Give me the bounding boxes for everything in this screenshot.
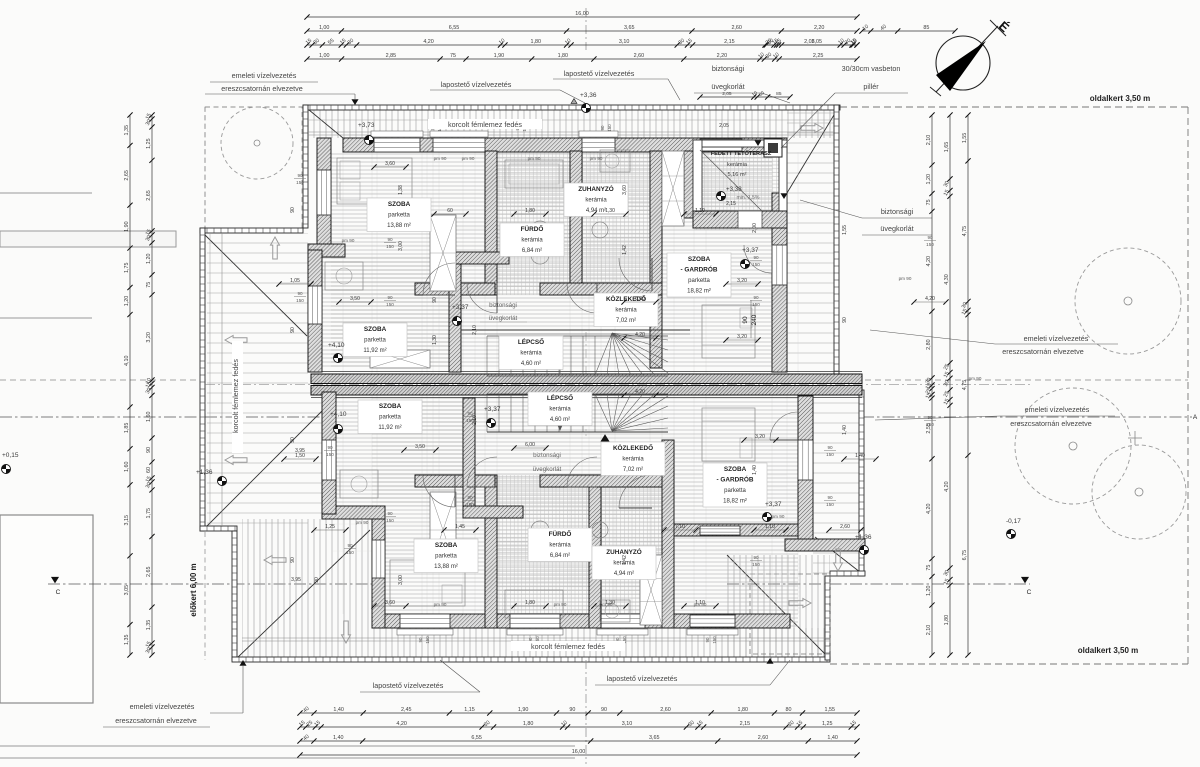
svg-text:150: 150 [826,452,834,457]
desk wing lower [340,470,378,498]
svg-text:+3,36: +3,36 [580,92,597,99]
right outer wall lower [798,396,813,551]
svg-text:2,20: 2,20 [814,25,825,31]
svg-text:2,65: 2,65 [124,170,130,181]
svg-text:kerámia: kerámia [549,543,571,549]
svg-text:biztonsági: biztonsági [881,207,914,216]
bed gardrob upper [702,305,755,358]
tree top-left [221,107,293,179]
svg-text:pm 90: pm 90 [462,156,475,161]
svg-text:90: 90 [290,327,296,333]
annotation korcolt fémlemez fedés top [428,119,542,129]
svg-text:parketta: parketta [364,338,386,344]
wardrobe gardrob upper [662,151,684,226]
bed gardrob lower [702,408,755,461]
svg-text:pm 90: pm 90 [434,156,447,161]
svg-text:150: 150 [425,636,430,644]
svg-text:üvegkorlát: üvegkorlát [880,224,913,233]
roof drainage arrows [271,237,280,259]
room label közlekedő upper [594,293,658,327]
oldalkert boundary top right dashed [840,106,1188,108]
svg-text:90: 90 [927,415,933,420]
svg-text:pm 90: pm 90 [528,156,541,161]
svg-text:kerámia: kerámia [615,308,637,314]
wardrobe lower [430,492,456,568]
tree right 3 [1092,445,1186,539]
svg-text:2,10: 2,10 [926,135,932,146]
svg-text:3,50: 3,50 [350,296,360,302]
svg-text:1,25: 1,25 [146,138,152,149]
left dimension chain outer [129,115,131,655]
svg-text:90: 90 [290,557,296,563]
svg-text:150: 150 [752,262,760,267]
svg-text:1,40: 1,40 [827,735,838,741]
eaves band wing top [200,228,303,233]
dashed line right of building (ridge projection) [865,379,1188,381]
svg-text:2,65: 2,65 [146,567,152,578]
svg-text:3,20: 3,20 [755,434,765,440]
svg-text:3,60: 3,60 [385,161,395,167]
svg-text:1,20: 1,20 [926,174,932,185]
svg-text:90: 90 [753,255,759,260]
svg-text:6,00: 6,00 [525,442,535,448]
eaves band top [303,105,840,110]
svg-text:7,02 m²: 7,02 m² [616,318,636,324]
svg-text:90: 90 [927,235,933,240]
svg-text:1,40: 1,40 [842,425,848,435]
terrace gutter triangles [755,141,761,146]
svg-text:90: 90 [387,295,393,300]
svg-text:1,90: 1,90 [124,221,130,232]
svg-text:2,10: 2,10 [472,325,478,335]
room label szoba 11.92 upper [343,323,407,357]
svg-text:150: 150 [752,562,760,567]
svg-text:3,60: 3,60 [385,600,395,606]
stairs upper [486,336,488,376]
pillar 30/30 [764,139,782,157]
svg-text:1,55: 1,55 [825,707,836,713]
svg-text:parketta: parketta [435,554,457,560]
survey cross [1128,437,1142,439]
left outer wall upper [317,138,331,257]
svg-text:2,85: 2,85 [386,53,397,59]
bottom dimension chain row 1 [300,712,857,714]
svg-text:1,10: 1,10 [765,524,775,530]
svg-text:90: 90 [827,445,833,450]
svg-text:2,05: 2,05 [722,91,732,97]
svg-text:3,50: 3,50 [415,444,425,450]
door arcs [423,263,455,295]
svg-text:1,42: 1,42 [622,555,628,565]
svg-text:75: 75 [926,199,932,205]
svg-text:emeleti vízelvezetés: emeleti vízelvezetés [1024,334,1089,343]
svg-text:pm 90: pm 90 [969,376,982,381]
svg-text:30/30cm vasbeton: 30/30cm vasbeton [842,64,901,73]
gutter lines left wing roof [209,233,211,527]
eaves band bottom [232,657,830,662]
bed lower szoba [390,560,465,606]
svg-text:1,25: 1,25 [325,524,335,530]
room label lépcső upper [499,336,563,370]
svg-text:80: 80 [785,707,791,713]
svg-text:11,92 m²: 11,92 m² [363,348,386,354]
svg-text:4,94 m²: 4,94 m² [614,571,634,577]
svg-text:parketta: parketta [388,213,410,219]
svg-text:150: 150 [712,636,717,644]
bath fixtures upper [505,160,563,188]
svg-text:90: 90 [297,173,303,178]
eaves band left upper [303,105,308,228]
svg-text:3,20: 3,20 [737,334,747,340]
room label gardrob upper [667,253,731,297]
svg-text:3,65: 3,65 [649,735,660,741]
section line C [48,583,372,585]
svg-text:3,60: 3,60 [622,185,628,195]
railing above stairs [461,329,690,331]
room label zuhanyzó lower [592,546,656,580]
svg-text:korcolt fémlemez fedés: korcolt fémlemez fedés [448,120,522,129]
svg-text:2,25: 2,25 [813,53,824,59]
svg-text:75: 75 [926,565,932,571]
svg-text:150: 150 [752,302,760,307]
room label szoba 13.88 upper [367,198,431,232]
svg-text:+3,38: +3,38 [726,186,742,193]
eaves band wing left [200,228,205,531]
eaves band right lower [859,390,864,576]
bottom outer wall [372,614,790,628]
right outer wall upper [772,193,787,372]
svg-text:+0,15: +0,15 [2,452,19,459]
svg-text:3,10: 3,10 [619,39,630,45]
svg-text:LÉPCSŐ: LÉPCSŐ [547,393,573,402]
svg-text:150: 150 [466,502,474,507]
top small header chains right [862,30,955,32]
room label szoba 11.92 lower [358,400,422,434]
svg-text:ZUHANYZÓ: ZUHANYZÓ [606,547,642,556]
room label közlekedő lower [601,442,665,476]
svg-text:pm 90: pm 90 [694,602,707,607]
tree right 1 [1075,248,1181,354]
room floors [331,151,772,368]
svg-text:1,80: 1,80 [738,707,749,713]
north arrow [936,36,990,90]
svg-text:FÜRDŐ: FÜRDŐ [521,224,544,233]
svg-text:parketta: parketta [379,415,401,421]
svg-text:90: 90 [347,543,353,548]
svg-text:90: 90 [569,707,575,713]
svg-text:+3,73: +3,73 [358,122,375,129]
wardrobe gardrob lower [640,555,662,625]
svg-text:90: 90 [742,316,749,324]
svg-text:16,00: 16,00 [572,749,586,755]
room label fürdő upper [500,223,564,257]
svg-text:1,80: 1,80 [523,721,534,727]
svg-text:üvegkorlát: üvegkorlát [489,315,518,322]
svg-text:2,05: 2,05 [719,123,729,129]
svg-text:2,10: 2,10 [926,625,932,636]
svg-text:90: 90 [827,495,833,500]
annotation korcolt fémlemez fedés bottom [511,641,625,651]
svg-text:pm 90: pm 90 [356,520,369,525]
right dimension chain mid [949,115,951,655]
svg-text:75: 75 [146,282,152,288]
left dimension chain inner [151,115,153,655]
svg-text:5,16 m²: 5,16 m² [728,172,747,178]
eaves band right upper [834,105,839,379]
svg-text:1,55: 1,55 [842,225,848,235]
svg-text:90: 90 [418,637,423,642]
svg-text:4,20: 4,20 [926,256,932,267]
svg-text:ereszcsatornán elvezetve: ereszcsatornán elvezetve [1002,347,1084,356]
svg-text:4,20: 4,20 [925,296,935,302]
svg-text:emeleti vízelvezetés: emeleti vízelvezetés [232,71,297,80]
stairs lower [486,394,488,432]
svg-text:2,60: 2,60 [634,53,645,59]
bottom dimension chain row 4 [300,754,857,756]
svg-text:2,45: 2,45 [401,707,412,713]
svg-text:150: 150 [326,452,334,457]
svg-text:parketta: parketta [688,278,710,284]
svg-text:üvegkorlát: üvegkorlát [533,466,562,473]
svg-text:biztonsági: biztonsági [712,64,745,73]
wardrobe upper [430,215,456,291]
svg-text:C: C [1027,589,1032,596]
svg-text:1,20: 1,20 [926,586,932,597]
site context lines left [0,192,92,194]
svg-text:2,15: 2,15 [726,201,736,207]
svg-text:90: 90 [753,295,759,300]
gardrob wall next to terrace [684,151,693,218]
svg-text:2,00: 2,00 [752,223,758,233]
svg-text:kerámia: kerámia [727,162,748,168]
svg-text:+1,36: +1,36 [855,534,872,541]
faint horizontal extension lines through plan [331,192,787,194]
gardrob bottom wall lower [674,524,798,536]
gutter lines bottom roof strip [242,637,830,639]
svg-text:oldalkert 3,50 m: oldalkert 3,50 m [1078,646,1138,655]
svg-text:előkert 6,00 m: előkert 6,00 m [189,563,198,616]
neighbour building outline bottom-left [0,515,93,703]
svg-text:150: 150 [386,518,394,523]
svg-text:90: 90 [387,511,393,516]
svg-text:+3,37: +3,37 [452,304,469,311]
svg-text:emeleti vízelvezetés: emeleti vízelvezetés [1025,405,1090,414]
svg-text:4,20: 4,20 [423,39,434,45]
svg-text:90: 90 [467,495,473,500]
svg-text:biztonsági: biztonsági [489,302,517,309]
oldalkert boundary bottom dashed [830,663,1188,665]
wing top wall [308,244,345,257]
svg-text:+3,37: +3,37 [765,501,782,508]
svg-text:-0,17: -0,17 [1006,518,1021,525]
top outer wall [343,138,787,152]
svg-text:90: 90 [600,125,605,130]
symmetry axis dash-dot [585,8,587,50]
svg-text:4,20: 4,20 [926,503,932,514]
svg-text:lapostető vízelvezetés: lapostető vízelvezetés [564,69,635,78]
svg-text:SZOBA: SZOBA [364,326,387,333]
svg-text:6,84 m²: 6,84 m² [522,248,542,254]
svg-text:150: 150 [926,422,934,427]
svg-text:+1,36: +1,36 [196,469,213,476]
roof hip diagonals [303,105,343,138]
svg-text:+3,37: +3,37 [742,247,759,254]
svg-text:6,75: 6,75 [962,550,968,561]
svg-text:2,60: 2,60 [758,735,769,741]
svg-text:4,20: 4,20 [635,332,645,338]
svg-text:85: 85 [776,91,782,97]
svg-text:1,38: 1,38 [398,185,404,195]
svg-text:1,10: 1,10 [695,208,705,214]
top dimension chain row 4 [307,58,857,60]
svg-text:150: 150 [296,298,304,303]
svg-text:90: 90 [387,237,393,242]
svg-text:18,82 m²: 18,82 m² [687,289,711,295]
svg-text:biztonsági: biztonsági [533,452,561,459]
right dimension chain inner [931,115,933,655]
top dimension chain row 1 [307,16,857,18]
svg-text:1,20: 1,20 [124,296,130,307]
wing bottom wall lower [322,506,385,519]
svg-text:1,35: 1,35 [124,125,130,136]
svg-text:1,15: 1,15 [464,707,475,713]
svg-text:pm 90: pm 90 [342,238,355,243]
svg-text:2,80: 2,80 [926,339,932,350]
svg-text:1,80: 1,80 [531,39,542,45]
svg-text:lapostető vízelvezetés: lapostető vízelvezetés [373,681,444,690]
svg-text:90: 90 [314,577,320,583]
svg-text:90: 90 [432,297,438,303]
svg-text:6,00: 6,00 [635,296,645,302]
svg-text:1,35: 1,35 [146,620,152,631]
svg-text:2,60: 2,60 [840,524,850,530]
svg-text:150: 150 [926,242,934,247]
svg-text:6,55: 6,55 [471,735,482,741]
svg-text:1,80: 1,80 [558,53,569,59]
svg-text:3,95: 3,95 [291,577,301,583]
svg-text:4,10: 4,10 [124,356,130,367]
svg-text:150: 150 [466,418,474,423]
svg-text:parketta: parketta [724,488,746,494]
svg-text:2,60: 2,60 [660,707,671,713]
bed upper szoba [337,158,412,204]
tree right 2 [1015,388,1131,504]
svg-text:C: C [56,589,61,596]
svg-text:1,85: 1,85 [124,423,130,434]
svg-text:pm 90: pm 90 [554,602,567,607]
svg-text:+4,10: +4,10 [330,411,347,418]
svg-text:1,80: 1,80 [944,615,950,626]
faint vertical extension lines through plan [342,152,344,614]
svg-text:150: 150 [386,302,394,307]
dashed terrace rect bottom right [750,574,830,654]
terrace slope diagonal [700,150,763,212]
wing left wall lower [322,392,336,514]
svg-text:1,65: 1,65 [944,142,950,153]
svg-text:90: 90 [467,411,473,416]
svg-text:emeleti vízelvezetés: emeleti vízelvezetés [130,702,195,711]
svg-text:1,42: 1,42 [622,245,628,255]
svg-text:85: 85 [923,25,929,31]
terrace bottom wall [693,211,787,228]
svg-text:2,20: 2,20 [717,53,728,59]
svg-text:90: 90 [753,555,759,560]
top dimension chain row 3 [307,44,857,46]
road edge lines bottom [0,745,575,747]
svg-text:lapostető vízelvezetés: lapostető vízelvezetés [607,674,678,683]
svg-text:pillér: pillér [863,82,879,91]
svg-text:6,84 m²: 6,84 m² [550,553,570,559]
room label lépcső lower [528,392,592,426]
svg-text:1,00: 1,00 [319,53,330,59]
svg-text:4,20: 4,20 [944,481,950,492]
interior walls upper [485,151,497,295]
svg-text:kerámia: kerámia [521,238,543,244]
svg-text:18,82 m²: 18,82 m² [723,499,747,505]
gutter lines top roof strip [308,131,834,133]
svg-text:1,00: 1,00 [319,25,330,31]
room label fürdő lower [528,528,592,562]
svg-text:90: 90 [601,707,607,713]
svg-text:SZOBA: SZOBA [724,466,747,473]
svg-text:13,88 m²: 13,88 m² [434,564,458,570]
svg-text:3,65: 3,65 [624,25,635,31]
svg-text:1,25: 1,25 [822,721,833,727]
dashed tree plot top-left [205,107,302,229]
svg-text:pm 90: pm 90 [590,156,603,161]
svg-text:1,80: 1,80 [525,208,535,214]
svg-text:150: 150 [607,124,612,132]
svg-text:LÉPCSŐ: LÉPCSŐ [518,337,544,346]
svg-text:lapostető vízelvezetés: lapostető vízelvezetés [441,80,512,89]
svg-text:7,02 m²: 7,02 m² [623,467,643,473]
svg-text:kerámia: kerámia [585,198,607,204]
svg-text:4,20: 4,20 [635,389,645,395]
eaves band wing bottom step [200,526,237,531]
svg-text:150: 150 [386,244,394,249]
svg-text:1,60: 1,60 [124,461,130,472]
interior walls lower [485,475,497,628]
svg-text:4,60 m²: 4,60 m² [521,361,541,367]
gutter point triangles [352,100,358,105]
party wall (center) [311,374,862,384]
svg-text:7,10: 7,10 [675,524,685,530]
svg-text:ZUHANYZÓ: ZUHANYZÓ [578,184,614,193]
svg-text:4,94 m²: 4,94 m² [586,208,606,214]
svg-text:1,05: 1,05 [290,278,300,284]
svg-text:ereszcsatornán elvezetve: ereszcsatornán elvezetve [1010,419,1092,428]
svg-text:+4,10: +4,10 [328,342,345,349]
svg-text:- GARDRÓB: - GARDRÓB [681,265,718,274]
terrace railings (thin) [693,140,787,147]
svg-text:1,30: 1,30 [605,208,615,214]
bottom dimension chain row 3 [300,740,857,742]
bottom dimension chain row 2 [300,726,857,728]
roof overhang areas (striped) [308,110,834,138]
svg-text:1,75: 1,75 [146,508,152,519]
svg-text:1,40: 1,40 [333,735,344,741]
svg-text:90: 90 [290,437,296,443]
svg-text:1,45: 1,45 [455,524,465,530]
svg-text:90: 90 [297,291,303,296]
svg-text:1,40: 1,40 [333,707,344,713]
svg-text:A: A [1193,414,1198,421]
svg-text:6,55: 6,55 [449,25,460,31]
svg-text:+3,37: +3,37 [484,406,501,413]
svg-text:1,50: 1,50 [295,453,305,459]
svg-text:kerámia: kerámia [549,407,571,413]
dashed roof projection left [204,107,206,660]
